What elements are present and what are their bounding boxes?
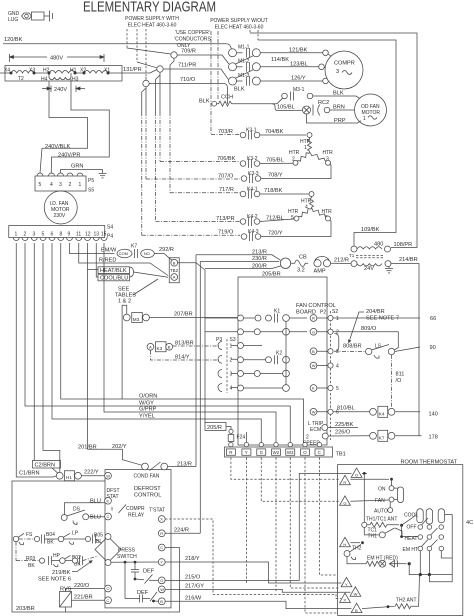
svg-text:201/BR: 201/BR bbox=[78, 444, 97, 450]
fuse circle 710/O bbox=[143, 80, 149, 86]
M3 coil feed loop bbox=[122, 305, 127, 399]
relay coil H1 bbox=[56, 472, 63, 479]
svg-text:C2/BRN: C2/BRN bbox=[35, 463, 56, 469]
svg-text:240V/BLK: 240V/BLK bbox=[45, 144, 70, 150]
wire pin8 O/ORN bbox=[61, 243, 304, 444]
board outline bbox=[238, 277, 327, 445]
terminal H triangle bbox=[340, 537, 351, 546]
svg-text:214/BR: 214/BR bbox=[399, 257, 418, 263]
svg-text:218/Y: 218/Y bbox=[185, 556, 200, 562]
svg-text:LP: LP bbox=[72, 531, 79, 537]
svg-text:G: G bbox=[312, 329, 315, 334]
transformer T2 box bbox=[5, 66, 122, 82]
svg-text:W: W bbox=[312, 363, 316, 368]
thermostat box bbox=[338, 465, 463, 616]
svg-text:X4: X4 bbox=[4, 68, 10, 74]
svg-text:COOL/BLU: COOL/BLU bbox=[100, 275, 128, 281]
svg-text:ʻUSE COPPERʼ: ʻUSE COPPERʼ bbox=[175, 29, 210, 36]
svg-text:M1-1: M1-1 bbox=[238, 45, 250, 51]
dashdot link FS to R03 bbox=[15, 542, 17, 561]
svg-text:ROOM THERMOSTAT: ROOM THERMOSTAT bbox=[401, 460, 458, 466]
K3-A link bbox=[146, 346, 148, 348]
svg-text:K3: K3 bbox=[157, 346, 163, 351]
RVS to 203/BR bbox=[64, 607, 66, 612]
svg-text:P3: P3 bbox=[216, 337, 222, 343]
svg-text:707/O: 707/O bbox=[218, 174, 234, 180]
svg-text:720/Y: 720/Y bbox=[268, 231, 283, 237]
svg-text:BK: BK bbox=[28, 563, 35, 569]
svg-text:226/O: 226/O bbox=[335, 430, 351, 436]
svg-text:W2: W2 bbox=[273, 450, 280, 455]
dashed X wire to thermostat bbox=[165, 519, 341, 599]
supply dashed feeders w/out elec heat bbox=[250, 30, 258, 40]
svg-text:126/Y: 126/Y bbox=[291, 76, 306, 82]
svg-text:808/BR: 808/BR bbox=[343, 344, 362, 350]
svg-text:R: R bbox=[160, 531, 163, 536]
svg-text:CCH: CCH bbox=[221, 95, 233, 101]
svg-text:4: 4 bbox=[336, 364, 339, 370]
svg-text:8: 8 bbox=[60, 232, 63, 238]
svg-text:K: K bbox=[107, 499, 110, 504]
svg-text:240V: 240V bbox=[54, 87, 67, 93]
svg-text:AMP: AMP bbox=[314, 269, 326, 275]
wire press switch to Y bbox=[111, 561, 158, 563]
R to fan switch wire bbox=[350, 478, 389, 480]
svg-text:W: W bbox=[160, 587, 164, 592]
svg-text:2: 2 bbox=[24, 232, 27, 238]
G to fan wire bbox=[350, 500, 389, 501]
field wires TB1 to thermostat bbox=[231, 458, 339, 614]
svg-text:BLU: BLU bbox=[90, 499, 101, 505]
svg-text:K2: K2 bbox=[276, 351, 282, 357]
terminal C bbox=[158, 544, 165, 551]
svg-text:810/BL: 810/BL bbox=[337, 406, 355, 412]
svg-text:207/BR: 207/BR bbox=[174, 312, 193, 318]
svg-text:EM/W: EM/W bbox=[101, 248, 117, 254]
svg-text:W3: W3 bbox=[287, 450, 294, 455]
wire pin5 201/BR bbox=[43, 243, 60, 472]
terminal B bbox=[158, 598, 165, 605]
terminal G triangle bbox=[340, 496, 351, 505]
heater phase drop 717 bbox=[170, 58, 174, 112]
svg-text:COND FAN: COND FAN bbox=[134, 474, 160, 480]
svg-text:LUG: LUG bbox=[8, 17, 18, 23]
svg-text:O: O bbox=[303, 450, 307, 455]
svg-text:X: X bbox=[160, 517, 163, 522]
wire 120/BK to M1-1 bbox=[226, 44, 232, 49]
svg-text:P2: P2 bbox=[320, 310, 326, 316]
wire crossover M1-3 to M1-2 bbox=[236, 70, 254, 79]
wire pin9 EM/W bbox=[70, 243, 115, 254]
ground symbol bbox=[99, 174, 107, 178]
svg-text:204/BR: 204/BR bbox=[366, 309, 385, 315]
outer low-voltage box bbox=[12, 481, 179, 612]
board terminal L2 row bbox=[238, 329, 244, 335]
id fan motor 230V bbox=[44, 191, 77, 224]
svg-text:X: X bbox=[343, 598, 346, 603]
svg-text:R: R bbox=[229, 450, 232, 455]
svg-text:811: 811 bbox=[396, 372, 405, 378]
board terminal row3 bbox=[238, 343, 244, 349]
T2 secondary winding H4-H3 bbox=[49, 73, 71, 80]
svg-text:4C: 4C bbox=[466, 520, 473, 526]
svg-text:Y: Y bbox=[245, 450, 248, 455]
terminal B triangle bbox=[351, 603, 362, 612]
svg-text:COOL: COOL bbox=[404, 513, 418, 519]
heater phase drop 707 bbox=[145, 87, 147, 112]
svg-text:3: 3 bbox=[230, 372, 233, 378]
svg-text:178: 178 bbox=[429, 435, 438, 441]
heater phase drop 713 bbox=[156, 75, 161, 112]
wire feeder diagonals bbox=[127, 48, 171, 80]
riser 213/R down bbox=[195, 255, 197, 467]
svg-text:717/R: 717/R bbox=[219, 187, 234, 193]
svg-text:292/R: 292/R bbox=[159, 247, 174, 253]
wire pin2 W/GY bbox=[25, 243, 290, 444]
terminal O triangle bbox=[351, 468, 362, 477]
svg-text:1: 1 bbox=[79, 182, 82, 188]
svg-text:9: 9 bbox=[68, 232, 71, 238]
svg-text:POWER SUPPLY W/OUT: POWER SUPPLY W/OUT bbox=[210, 18, 268, 24]
svg-text:230V: 230V bbox=[54, 213, 66, 219]
terminal R bbox=[158, 530, 165, 537]
svg-text:1: 1 bbox=[363, 116, 366, 122]
svg-text:CB: CB bbox=[299, 255, 307, 261]
svg-text:S5: S5 bbox=[88, 188, 94, 194]
svg-text:TH2 ANT: TH2 ANT bbox=[396, 598, 417, 604]
svg-text:DEFROST: DEFROST bbox=[134, 486, 161, 492]
svg-text:O: O bbox=[106, 586, 109, 591]
svg-text:M3-1: M3-1 bbox=[293, 87, 305, 93]
relay coil K7 bbox=[370, 432, 377, 439]
svg-text:FAN: FAN bbox=[375, 498, 385, 504]
svg-text:205/R: 205/R bbox=[207, 425, 222, 431]
svg-text:T1: T1 bbox=[349, 253, 355, 258]
svg-text:1: 1 bbox=[304, 145, 307, 151]
wire 205/R fuse feed bbox=[205, 423, 226, 431]
svg-text:BK: BK bbox=[47, 540, 54, 546]
svg-text:1: 1 bbox=[230, 344, 233, 350]
svg-text:1: 1 bbox=[336, 316, 339, 322]
terminal dots bbox=[10, 72, 110, 75]
svg-text:ECM: ECM bbox=[310, 427, 321, 433]
brace to TB2 bbox=[130, 267, 134, 277]
svg-text:O: O bbox=[160, 578, 163, 583]
svg-text:P5: P5 bbox=[88, 178, 94, 184]
phantom feeder 703 bbox=[210, 31, 212, 135]
svg-text:713/PR: 713/PR bbox=[216, 216, 235, 222]
S3 pin stubs to board bbox=[231, 346, 238, 388]
svg-text:5: 5 bbox=[336, 386, 339, 392]
svg-text:12: 12 bbox=[85, 232, 91, 238]
svg-text:1 & 2: 1 & 2 bbox=[118, 299, 131, 305]
svg-text:A: A bbox=[173, 275, 176, 280]
svg-text:HP: HP bbox=[53, 553, 61, 559]
terminal X triangle bbox=[340, 593, 351, 602]
defrost W wire to stat bbox=[165, 589, 350, 592]
board terminal row5 bbox=[238, 370, 290, 377]
svg-text:SEE NOTE 6: SEE NOTE 6 bbox=[38, 577, 71, 583]
svg-text:C: C bbox=[318, 450, 321, 455]
svg-text:K7: K7 bbox=[131, 244, 137, 250]
wire pin13 COOL/BLU bbox=[96, 243, 98, 277]
svg-text:719/O: 719/O bbox=[218, 230, 234, 236]
svg-text:O/ORN: O/ORN bbox=[139, 394, 157, 400]
svg-text:114/BK: 114/BK bbox=[271, 57, 289, 63]
svg-text:K4: K4 bbox=[379, 411, 385, 416]
svg-text:FS: FS bbox=[26, 532, 33, 538]
svg-text:3: 3 bbox=[336, 69, 339, 75]
svg-text:FAN CONTROL: FAN CONTROL bbox=[296, 303, 336, 309]
svg-text:5: 5 bbox=[291, 215, 294, 221]
terminal Y triangle bbox=[341, 577, 352, 586]
svg-text:90: 90 bbox=[430, 345, 436, 351]
wire H3 to 240V/PR bbox=[51, 79, 109, 173]
svg-text:4: 4 bbox=[230, 386, 233, 392]
svg-text:O: O bbox=[355, 473, 358, 478]
svg-text:C: C bbox=[106, 598, 109, 603]
svg-text:225/BK: 225/BK bbox=[335, 422, 354, 428]
wire TB2-B to board bbox=[178, 263, 205, 423]
defrost B wire to stat bbox=[165, 601, 351, 608]
svg-text:M3: M3 bbox=[133, 317, 140, 322]
svg-text:11: 11 bbox=[76, 232, 81, 238]
terminal X bbox=[158, 516, 165, 523]
svg-text:ELEMENTARY DIAGRAM: ELEMENTARY DIAGRAM bbox=[83, 0, 216, 16]
right terminals with letters bbox=[310, 315, 317, 416]
svg-text:BLU: BLU bbox=[90, 515, 101, 521]
svg-text:EM HT: EM HT bbox=[403, 547, 419, 553]
svg-text:809/O: 809/O bbox=[361, 326, 377, 332]
enclosure line inner (108/PR riser) bbox=[258, 40, 396, 246]
svg-text:216/W: 216/W bbox=[185, 596, 202, 602]
svg-text:709/R: 709/R bbox=[181, 49, 196, 55]
svg-text:H4: H4 bbox=[41, 77, 48, 83]
svg-text:24V: 24V bbox=[364, 266, 374, 272]
label C2/BRN boxed bbox=[33, 461, 61, 469]
svg-text:A: A bbox=[149, 344, 152, 349]
svg-text:POWER SUPPLY WITH: POWER SUPPLY WITH bbox=[125, 16, 179, 22]
svg-text:G/PRP: G/PRP bbox=[139, 407, 157, 413]
svg-text:R: R bbox=[343, 480, 346, 485]
svg-text:R: R bbox=[312, 316, 315, 321]
wire pin1 C1/BRN bbox=[16, 243, 56, 477]
svg-text:13: 13 bbox=[94, 232, 100, 238]
svg-text:706/BK: 706/BK bbox=[217, 156, 236, 162]
wire C to 203/BR bbox=[165, 548, 179, 551]
svg-text:480V: 480V bbox=[50, 56, 63, 62]
svg-text:5: 5 bbox=[39, 182, 42, 188]
svg-text:131/PR: 131/PR bbox=[123, 67, 142, 73]
terminal W (222/Y) bbox=[105, 472, 112, 479]
svg-text:COM: COM bbox=[119, 251, 128, 256]
svg-text:OFF: OFF bbox=[407, 524, 417, 530]
terminal W bbox=[158, 586, 165, 593]
svg-text:5: 5 bbox=[42, 232, 45, 238]
svg-text:H: H bbox=[343, 542, 346, 547]
svg-text:COMPR: COMPR bbox=[334, 61, 355, 67]
svg-text:703/R: 703/R bbox=[218, 129, 233, 135]
svg-text:NO: NO bbox=[144, 251, 150, 256]
svg-text:C: C bbox=[107, 514, 110, 519]
svg-text:HTR: HTR bbox=[323, 150, 334, 156]
svg-text:ELEC HEAT 460-3-60: ELEC HEAT 460-3-60 bbox=[215, 25, 264, 31]
svg-text:S3: S3 bbox=[230, 337, 236, 343]
plug P5/S5 bbox=[35, 173, 86, 191]
svg-text:219/BK: 219/BK bbox=[52, 570, 71, 576]
fuse circle 711/PR bbox=[157, 66, 163, 72]
terminal R triangle bbox=[340, 475, 351, 484]
defrost O wire to stat bbox=[165, 473, 351, 580]
svg-text:221/BR: 221/BR bbox=[74, 595, 93, 601]
defrost control box bbox=[105, 470, 171, 608]
svg-text:109/BK: 109/BK bbox=[361, 227, 380, 233]
svg-text:B: B bbox=[312, 349, 315, 354]
svg-text:4: 4 bbox=[50, 182, 53, 188]
svg-text:66: 66 bbox=[430, 316, 436, 322]
svg-text:TB2: TB2 bbox=[170, 268, 179, 273]
svg-text:W: W bbox=[312, 409, 316, 414]
svg-text:108/PR: 108/PR bbox=[394, 242, 413, 248]
svg-text:CONTROL: CONTROL bbox=[134, 493, 161, 499]
svg-text:TH2: TH2 bbox=[352, 546, 362, 552]
junction circle CB input bbox=[280, 258, 290, 268]
svg-text:BRN: BRN bbox=[333, 105, 345, 111]
terminal Y bbox=[158, 559, 165, 566]
svg-text:2: 2 bbox=[69, 182, 72, 188]
terminal W triangle bbox=[350, 587, 361, 596]
middle bus bbox=[285, 321, 287, 384]
svg-text:K7: K7 bbox=[379, 435, 385, 440]
board terminal row6 bbox=[238, 385, 290, 392]
svg-text:BLK: BLK bbox=[199, 99, 210, 105]
svg-text:H3: H3 bbox=[72, 77, 79, 83]
svg-text:Y: Y bbox=[345, 582, 348, 587]
svg-text:708/Y: 708/Y bbox=[268, 173, 283, 179]
svg-text:BLK: BLK bbox=[333, 91, 344, 97]
svg-text:R/RED: R/RED bbox=[99, 258, 116, 264]
svg-text:203/BR: 203/BR bbox=[16, 606, 35, 612]
wire H4 to 240V/BLK bbox=[40, 82, 88, 174]
T2 primary winding bbox=[0, 71, 122, 74]
svg-text:140: 140 bbox=[429, 412, 438, 418]
P2 pins 1-6 bbox=[317, 315, 333, 414]
wire pin12 HEAT/COOL and 202/Y bbox=[88, 243, 99, 269]
svg-text:ʻCONDUCTORSʼ: ʻCONDUCTORSʼ bbox=[174, 36, 212, 43]
svg-text:B: B bbox=[355, 608, 358, 613]
contact DEF to O bbox=[135, 575, 158, 584]
system switch assembly bbox=[417, 509, 445, 551]
svg-text:S4: S4 bbox=[107, 225, 113, 231]
svg-text:/O: /O bbox=[396, 378, 403, 384]
svg-text:3: 3 bbox=[59, 182, 62, 188]
compressor motor COMPR 3 bbox=[325, 51, 363, 89]
svg-text:3: 3 bbox=[33, 232, 36, 238]
svg-text:205/BR: 205/BR bbox=[262, 272, 281, 278]
svg-text:230/R: 230/R bbox=[252, 256, 267, 262]
svg-text:718/BK: 718/BK bbox=[264, 188, 283, 194]
fuse to TB1-R bbox=[228, 429, 234, 442]
svg-text:705/BL: 705/BL bbox=[266, 158, 284, 164]
wire pin3 C2/BRN bbox=[33, 243, 35, 461]
ground at T1 bbox=[388, 266, 390, 268]
svg-text:217/GY: 217/GY bbox=[185, 584, 204, 590]
svg-text:711/PR: 711/PR bbox=[178, 63, 196, 69]
svg-text:C: C bbox=[160, 545, 163, 550]
svg-text:H1: H1 bbox=[66, 475, 72, 480]
svg-text:120/BK: 120/BK bbox=[4, 37, 23, 43]
svg-text:ELEC HEAT 460-3-60: ELEC HEAT 460-3-60 bbox=[128, 23, 177, 29]
wire pin11 R/RED bbox=[79, 243, 168, 276]
od fan motor 1 bbox=[355, 94, 387, 126]
svg-text:W: W bbox=[354, 591, 358, 596]
contactor coil M3 bbox=[123, 314, 130, 321]
svg-text:3.2: 3.2 bbox=[297, 268, 305, 274]
svg-text:SEE NOTE 7: SEE NOTE 7 bbox=[366, 316, 399, 322]
svg-text:G: G bbox=[343, 501, 346, 506]
svg-text:15: 15 bbox=[101, 232, 107, 238]
relay coil K4 bbox=[370, 408, 377, 415]
svg-text:814/Y: 814/Y bbox=[175, 355, 190, 361]
riser 230/R down bbox=[199, 262, 201, 534]
svg-text:SWITCH: SWITCH bbox=[117, 554, 137, 560]
enclosure line top (109/BK riser) bbox=[250, 33, 417, 248]
svg-text:B: B bbox=[160, 599, 163, 604]
svg-text:Y: Y bbox=[160, 560, 163, 565]
O wire and junction bbox=[362, 472, 367, 474]
svg-text:105/BL: 105/BL bbox=[277, 105, 295, 111]
fuse circle 709/R bbox=[171, 52, 177, 58]
terminal O bbox=[158, 577, 165, 584]
svg-text:ON: ON bbox=[378, 487, 386, 493]
svg-text:DEF: DEF bbox=[137, 590, 149, 596]
svg-text:AUTO: AUTO bbox=[374, 509, 388, 515]
svg-text:W: W bbox=[106, 474, 110, 479]
svg-text:TB1: TB1 bbox=[336, 452, 346, 458]
svg-text:2: 2 bbox=[230, 357, 233, 363]
press switch diamond bbox=[95, 534, 121, 566]
wire pin6 Y/YEL bbox=[52, 243, 261, 444]
heater phase drop 706 bbox=[159, 72, 161, 112]
svg-text:C1/BRN: C1/BRN bbox=[19, 471, 40, 477]
svg-text:215/O: 215/O bbox=[185, 575, 201, 581]
switch wiring bbox=[402, 515, 452, 575]
jumper P2-2 to P2-3 bbox=[335, 334, 339, 352]
svg-text:813/BR: 813/BR bbox=[175, 341, 194, 347]
svg-text:Y/YEL: Y/YEL bbox=[139, 413, 155, 419]
connector S4/P4 bbox=[9, 226, 107, 241]
svg-text:M1-2: M1-2 bbox=[238, 59, 250, 65]
phase wires to M1 bbox=[149, 55, 229, 104]
svg-text:GRN: GRN bbox=[71, 164, 83, 170]
relay coil K3 bbox=[147, 343, 154, 350]
svg-text:1: 1 bbox=[15, 232, 18, 238]
terminal board TB2 bbox=[169, 258, 179, 283]
svg-text:T2: T2 bbox=[18, 76, 24, 82]
svg-text:240V/PR: 240V/PR bbox=[58, 153, 80, 159]
contact COND FAN bbox=[142, 462, 168, 471]
svg-text:710/O: 710/O bbox=[180, 77, 196, 83]
svg-text:COMPR: COMPR bbox=[126, 506, 145, 512]
defrost Y wire to stat bbox=[165, 562, 341, 583]
svg-text:212/R: 212/R bbox=[334, 258, 349, 264]
svg-text:PRESS: PRESS bbox=[118, 548, 136, 554]
supply dashed feeders with elec heat bbox=[127, 29, 146, 77]
svg-text:G: G bbox=[260, 450, 264, 455]
svg-text:HTR: HTR bbox=[289, 150, 300, 156]
svg-text:TH1/TC1 ANT: TH1/TC1 ANT bbox=[366, 517, 397, 523]
svg-text:S2: S2 bbox=[332, 309, 338, 315]
